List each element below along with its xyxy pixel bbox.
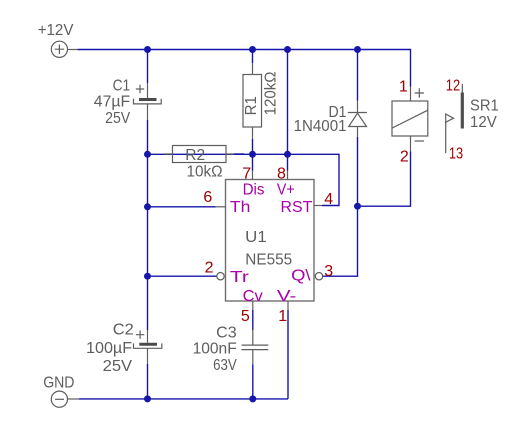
svg-text:12V: 12V	[470, 114, 497, 131]
svg-text:63V: 63V	[213, 357, 237, 374]
svg-text:1: 1	[278, 308, 287, 325]
svg-text:R2: R2	[185, 147, 205, 164]
svg-text:5: 5	[241, 308, 250, 325]
svg-text:7: 7	[242, 166, 251, 183]
svg-text:Tr: Tr	[230, 269, 250, 286]
svg-text:8: 8	[277, 166, 286, 183]
svg-text:U1: U1	[245, 229, 267, 246]
svg-text:1N4001: 1N4001	[294, 118, 347, 135]
svg-text:2: 2	[205, 259, 214, 276]
svg-text:NE555: NE555	[245, 251, 292, 268]
svg-text:120kΩ: 120kΩ	[263, 71, 280, 115]
svg-text:2: 2	[400, 148, 409, 165]
svg-text:Q\: Q\	[291, 268, 311, 285]
svg-text:C3: C3	[216, 325, 237, 342]
svg-text:R1: R1	[243, 96, 260, 115]
svg-text:47µF: 47µF	[94, 94, 131, 111]
svg-text:4: 4	[324, 191, 333, 208]
svg-text:+12V: +12V	[38, 22, 74, 39]
svg-text:SR1: SR1	[470, 98, 499, 115]
svg-text:100µF: 100µF	[86, 340, 132, 357]
svg-text:Th: Th	[230, 199, 251, 216]
svg-text:13: 13	[449, 146, 463, 163]
svg-text:V-: V-	[277, 288, 297, 305]
svg-text:V+: V+	[277, 182, 295, 199]
svg-text:RST: RST	[281, 199, 313, 216]
svg-text:12: 12	[446, 78, 460, 95]
svg-text:25V: 25V	[105, 110, 130, 127]
svg-text:1: 1	[399, 78, 408, 95]
svg-text:Cv: Cv	[243, 288, 263, 305]
svg-text:10kΩ: 10kΩ	[187, 164, 223, 181]
svg-text:100nF: 100nF	[193, 341, 237, 358]
svg-text:6: 6	[203, 189, 212, 206]
svg-text:C1: C1	[113, 77, 131, 94]
svg-text:25V: 25V	[103, 358, 133, 375]
svg-text:Dis: Dis	[243, 182, 265, 199]
svg-text:3: 3	[324, 263, 333, 280]
svg-text:GND: GND	[43, 375, 74, 392]
svg-text:C2: C2	[113, 321, 134, 338]
